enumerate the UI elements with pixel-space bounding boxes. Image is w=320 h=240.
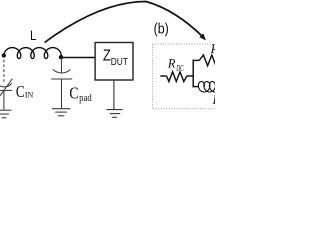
wire Z_DUT to ground	[113, 80, 115, 110]
wire node2 to C_pad	[61, 58, 63, 74]
node 1 (input, left)	[2, 53, 6, 57]
wire C_IN to ground	[3, 90, 5, 110]
svg-text:DUT: DUT	[111, 57, 129, 68]
inductor L	[4, 48, 61, 59]
ground (C_pad)	[52, 109, 70, 116]
resistor R (AC, cut off)	[199, 55, 224, 66]
svg-text:Z: Z	[103, 47, 111, 64]
node 2 (junction)	[59, 55, 63, 59]
inductor L (model, cut off)	[198, 82, 221, 93]
svg-text:L: L	[212, 93, 215, 107]
arrow to (b)	[45, 2, 207, 43]
DUT box	[95, 43, 133, 81]
wire R_DC to parallel rail	[187, 75, 193, 77]
dashed model box	[153, 44, 228, 109]
svg-text:DC: DC	[176, 63, 185, 72]
ground (C_IN)	[0, 110, 11, 118]
svg-text:R: R	[210, 41, 215, 56]
ground (Z_DUT)	[106, 110, 122, 118]
resistor R_DC	[167, 72, 187, 82]
wire input to R_DC	[160, 75, 166, 77]
svg-text:pad: pad	[79, 93, 92, 104]
wire bottom branch to L	[193, 86, 199, 88]
svg-text:C: C	[69, 83, 78, 102]
dashed wire node1 to C_IN	[3, 60, 5, 85]
svg-text:IN: IN	[25, 91, 34, 100]
svg-text:C: C	[16, 82, 25, 101]
svg-text:(b): (b)	[154, 22, 169, 38]
left rail of parallel RL	[192, 60, 194, 88]
svg-text:R: R	[167, 56, 176, 70]
wire C_pad to ground	[61, 79, 63, 109]
svg-text:L: L	[30, 27, 37, 43]
wire top branch to R	[193, 59, 200, 61]
wire node2 to Z_DUT	[61, 57, 95, 59]
capacitor C_IN (variable)	[0, 79, 12, 98]
capacitor C_pad	[51, 69, 72, 79]
